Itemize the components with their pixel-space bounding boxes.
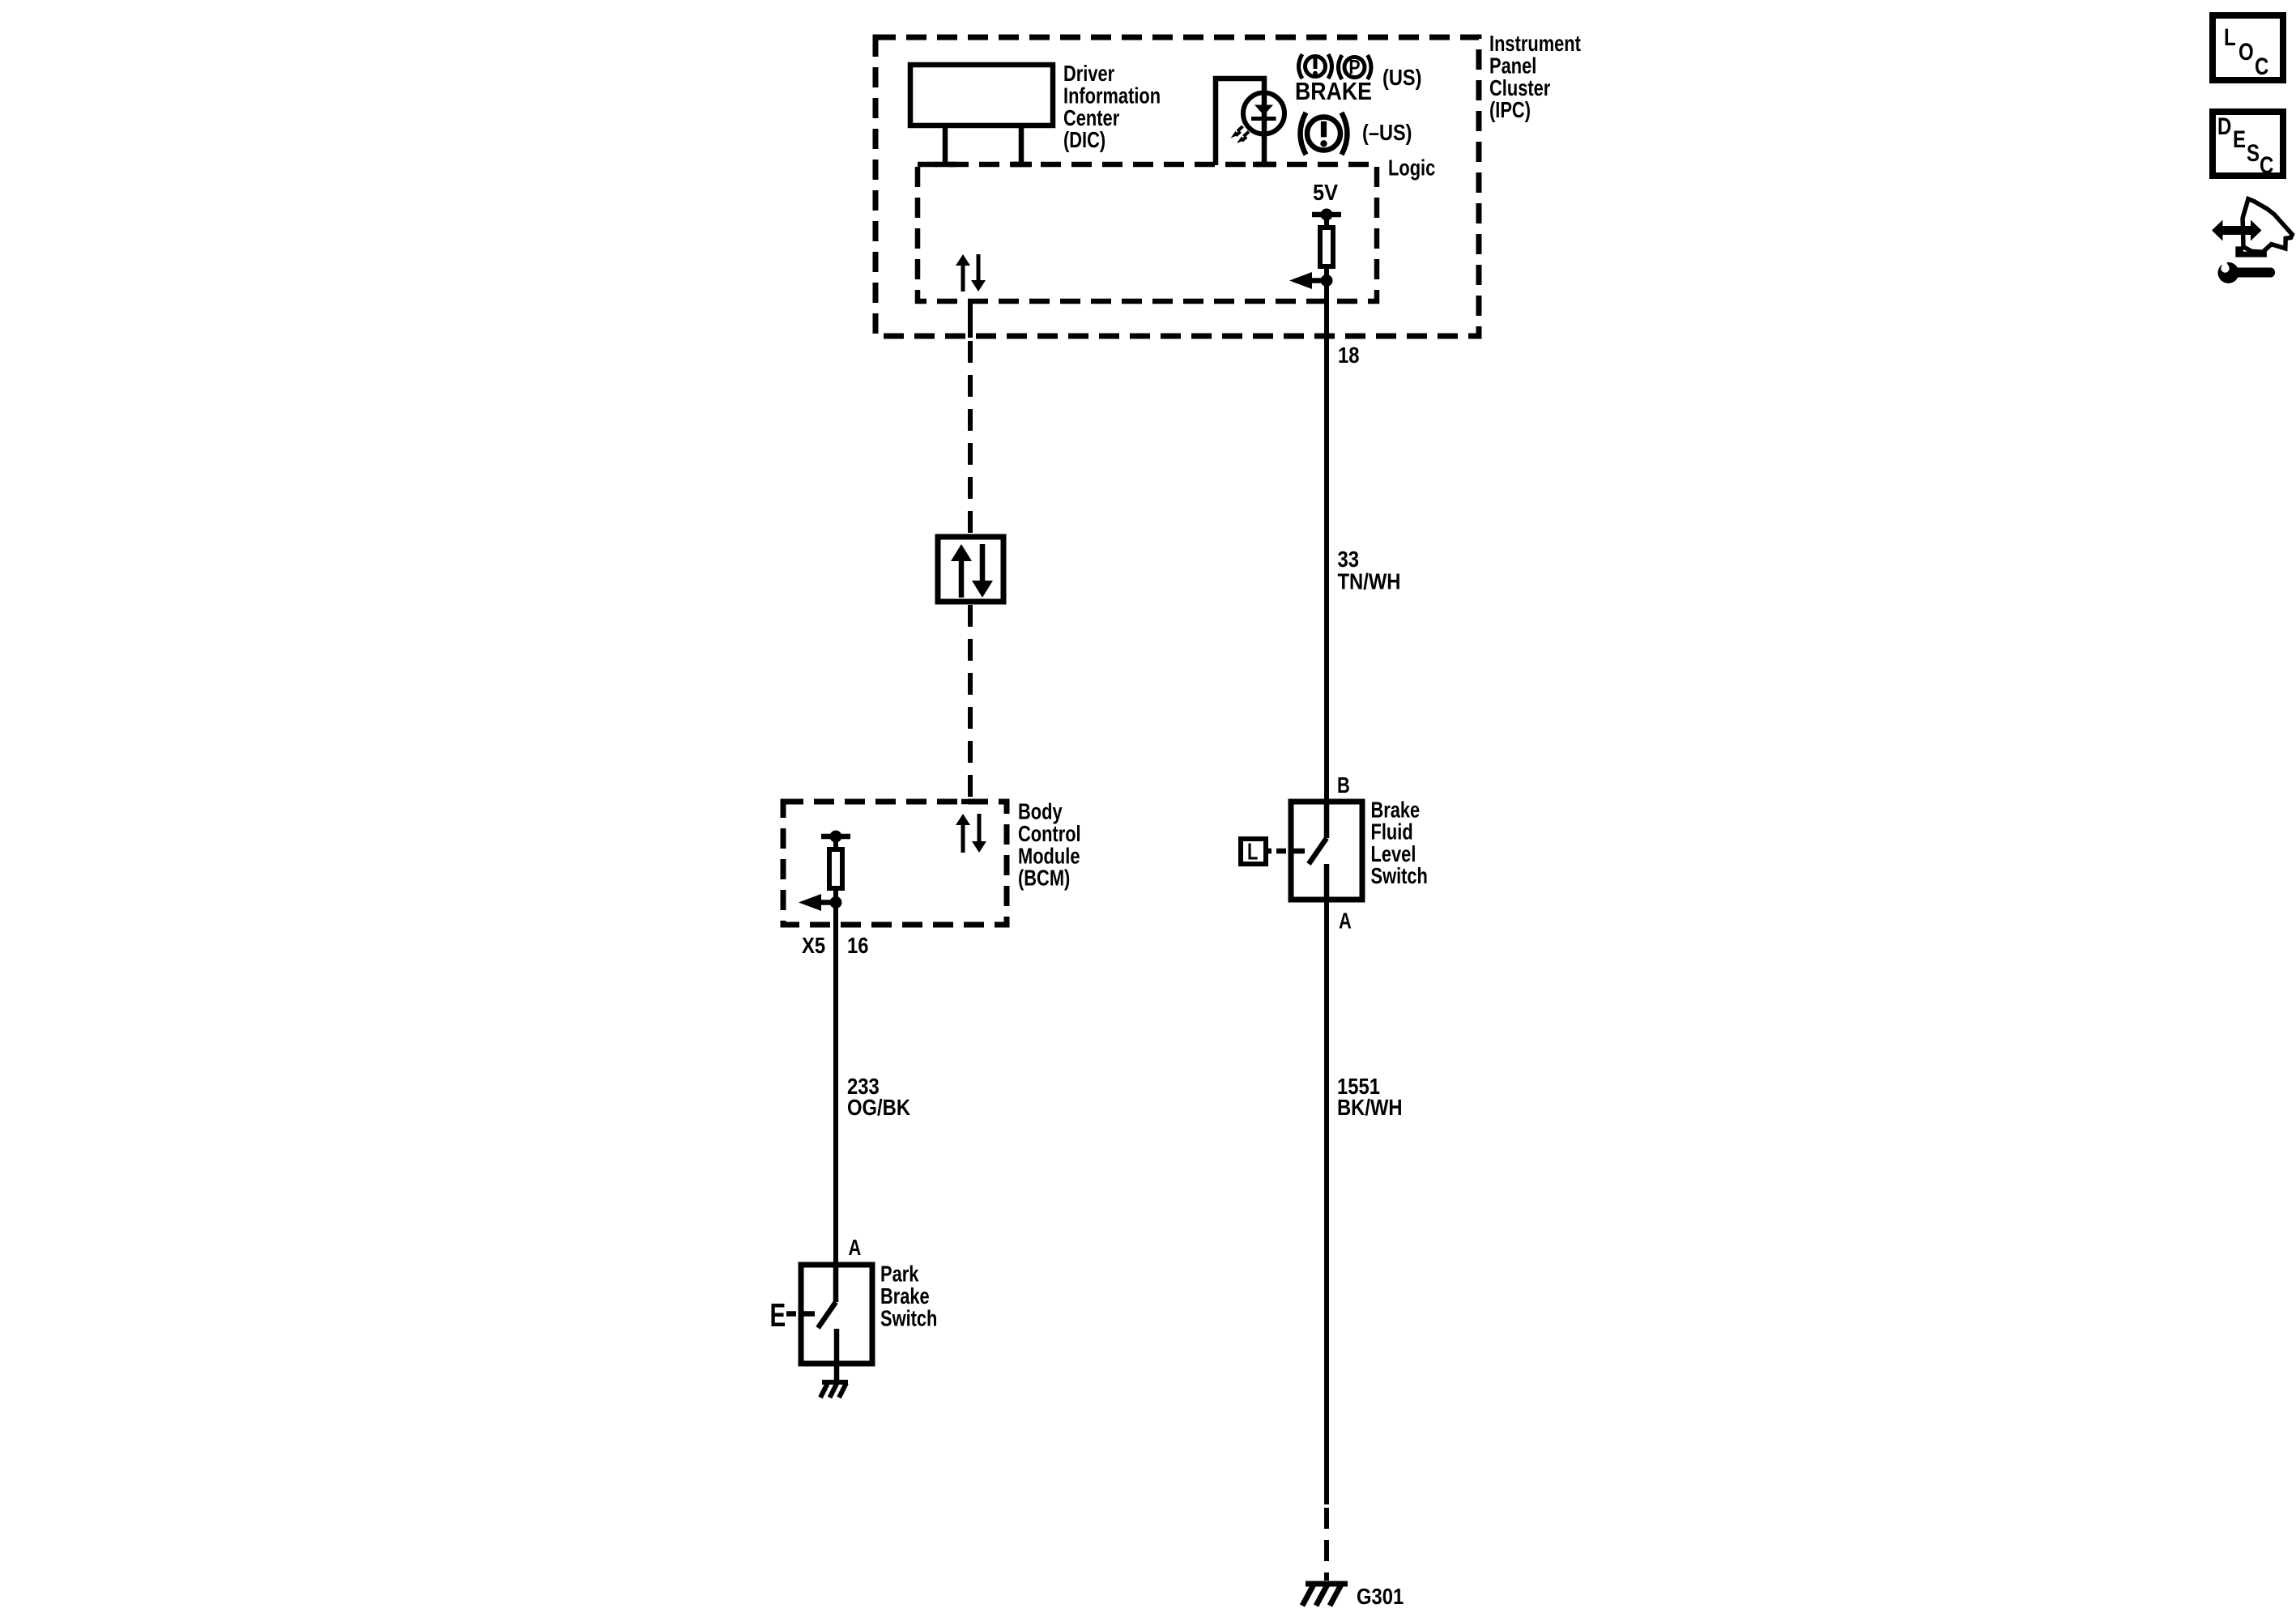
svg-text:18: 18 bbox=[1338, 343, 1360, 368]
svg-text:C: C bbox=[2255, 53, 2268, 80]
svg-text:A: A bbox=[849, 1235, 862, 1260]
svg-text:OG/BK: OG/BK bbox=[847, 1095, 910, 1120]
svg-text:G301: G301 bbox=[1357, 1584, 1404, 1609]
svg-text:Information: Information bbox=[1063, 83, 1161, 108]
svg-text:Control: Control bbox=[1018, 821, 1081, 846]
svg-text:Center: Center bbox=[1063, 105, 1119, 130]
svg-text:D: D bbox=[2217, 113, 2231, 140]
svg-text:16: 16 bbox=[847, 933, 869, 958]
svg-text:X5: X5 bbox=[802, 933, 825, 958]
svg-text:Park: Park bbox=[880, 1262, 919, 1287]
svg-text:A: A bbox=[1339, 908, 1352, 934]
svg-text:(US): (US) bbox=[1382, 65, 1422, 90]
svg-text:Driver: Driver bbox=[1063, 61, 1114, 86]
svg-text:Logic: Logic bbox=[1388, 155, 1435, 181]
svg-text:Brake: Brake bbox=[880, 1283, 930, 1308]
svg-text:Module: Module bbox=[1018, 843, 1080, 868]
svg-text:5V: 5V bbox=[1313, 180, 1338, 205]
svg-text:E: E bbox=[770, 1296, 786, 1334]
svg-text:E: E bbox=[2233, 126, 2246, 153]
svg-text:(DIC): (DIC) bbox=[1063, 127, 1105, 152]
svg-text:TN/WH: TN/WH bbox=[1338, 569, 1401, 594]
svg-text:O: O bbox=[2238, 39, 2254, 66]
svg-text:S: S bbox=[2247, 140, 2260, 167]
svg-text:Cluster: Cluster bbox=[1489, 75, 1550, 100]
svg-text:BK/WH: BK/WH bbox=[1337, 1095, 1403, 1120]
svg-text:(IPC): (IPC) bbox=[1489, 97, 1531, 122]
svg-text:(BCM): (BCM) bbox=[1018, 866, 1070, 891]
svg-text:33: 33 bbox=[1338, 547, 1360, 572]
svg-text:Body: Body bbox=[1018, 799, 1063, 824]
svg-text:Switch: Switch bbox=[1371, 863, 1428, 888]
svg-text:P: P bbox=[1348, 57, 1360, 79]
svg-text:Panel: Panel bbox=[1489, 53, 1536, 78]
svg-text:Instrument: Instrument bbox=[1489, 31, 1581, 56]
svg-text:L: L bbox=[1247, 840, 1258, 866]
svg-text:L: L bbox=[2224, 24, 2236, 51]
svg-text:Switch: Switch bbox=[880, 1305, 937, 1330]
svg-text:(–US): (–US) bbox=[1362, 120, 1412, 145]
svg-text:B: B bbox=[1337, 772, 1350, 798]
svg-text:C: C bbox=[2260, 152, 2273, 179]
svg-text:BRAKE: BRAKE bbox=[1295, 77, 1372, 105]
